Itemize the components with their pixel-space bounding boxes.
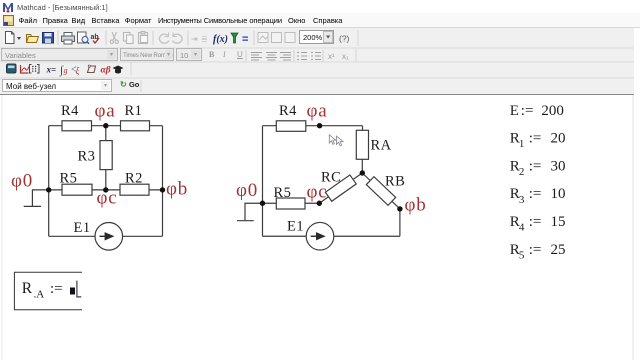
svg-text::=: := [529, 242, 542, 258]
svg-text::=: := [529, 158, 542, 174]
svg-text:10: 10 [551, 186, 566, 202]
svg-text:φ0: φ0 [236, 180, 258, 201]
svg-text:1: 1 [519, 138, 525, 150]
svg-text:2: 2 [519, 166, 525, 178]
svg-text:200: 200 [541, 103, 564, 119]
svg-text::=: := [529, 214, 542, 230]
svg-text:φc: φc [97, 188, 118, 209]
svg-text:RA: RA [371, 138, 392, 154]
svg-text:E1: E1 [74, 220, 91, 236]
svg-text:φa: φa [307, 101, 328, 122]
svg-text::=: := [529, 186, 542, 202]
svg-text:φ0: φ0 [11, 171, 33, 192]
svg-text:15: 15 [551, 214, 566, 230]
svg-text:RB: RB [385, 174, 405, 190]
svg-text:φb: φb [405, 195, 427, 216]
svg-text:5: 5 [519, 249, 525, 261]
svg-text:25: 25 [551, 242, 566, 258]
svg-text:E1: E1 [287, 219, 304, 235]
svg-text::=: := [529, 131, 542, 147]
svg-text:30: 30 [551, 158, 566, 174]
svg-text::=: := [521, 103, 534, 119]
svg-text:R2: R2 [125, 171, 143, 187]
svg-text:R3: R3 [78, 149, 96, 165]
svg-text:R: R [22, 280, 33, 297]
svg-text:φb: φb [166, 179, 188, 200]
svg-text:R4: R4 [61, 103, 79, 119]
svg-text:R1: R1 [125, 103, 143, 119]
svg-text:3: 3 [519, 194, 525, 206]
svg-text:.A: .A [34, 289, 45, 301]
svg-text:20: 20 [551, 131, 566, 147]
svg-text:R4: R4 [279, 103, 297, 119]
svg-text:φc: φc [307, 182, 328, 203]
svg-text:4: 4 [519, 222, 525, 234]
svg-text:R5: R5 [60, 171, 78, 187]
svg-text:E: E [510, 103, 519, 119]
svg-text::=: := [50, 281, 63, 297]
svg-text:R5: R5 [274, 185, 292, 201]
svg-text:φa: φa [95, 101, 116, 122]
